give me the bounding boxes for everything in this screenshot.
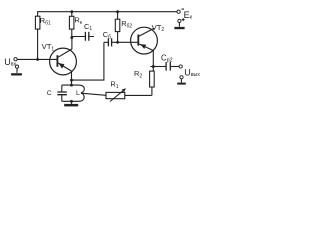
wire input base [17, 58, 57, 60]
terminal Uвх [14, 58, 19, 69]
node rail-Rк [70, 10, 73, 13]
ground input [11, 68, 22, 75]
node dots [36, 10, 155, 103]
ground output [177, 79, 186, 85]
resistor R2 [150, 67, 155, 96]
ground tank [64, 101, 78, 106]
node rail-Rб2 [116, 10, 119, 13]
resistor R1 variable [106, 89, 152, 102]
node base VT1 [36, 58, 39, 61]
capacitor Cб [104, 38, 138, 46]
ground Eк [174, 23, 184, 30]
capacitor C1 [72, 32, 94, 41]
transistor VT1 [50, 38, 77, 86]
wire VT2 emitter node [150, 66, 165, 68]
label minus [182, 8, 185, 10]
resistor Rб1 [35, 11, 40, 59]
wire feedback emitter to Cб [72, 42, 104, 80]
svg-text:L: L [76, 90, 80, 97]
svg-text:C: C [47, 90, 52, 97]
resistor Rб2 [115, 12, 120, 43]
node tank top [70, 84, 73, 87]
inductor L with tap [62, 85, 106, 101]
terminal Eк plus [178, 19, 181, 22]
capacitor Cр2 [166, 62, 179, 71]
resistor Rк [69, 12, 74, 38]
node tank bottom [70, 100, 73, 103]
terminal Uвых [179, 65, 183, 79]
label plus [182, 18, 185, 21]
wire top supply rail [38, 11, 178, 13]
terminal Eк minus [177, 10, 180, 13]
node collector VT1 [70, 36, 73, 39]
node emitter tap [70, 79, 73, 82]
tank capacitor C [57, 85, 67, 101]
node base VT2 [116, 41, 119, 44]
node emitter VT2 [152, 65, 155, 68]
transistor VT2 [131, 27, 158, 66]
